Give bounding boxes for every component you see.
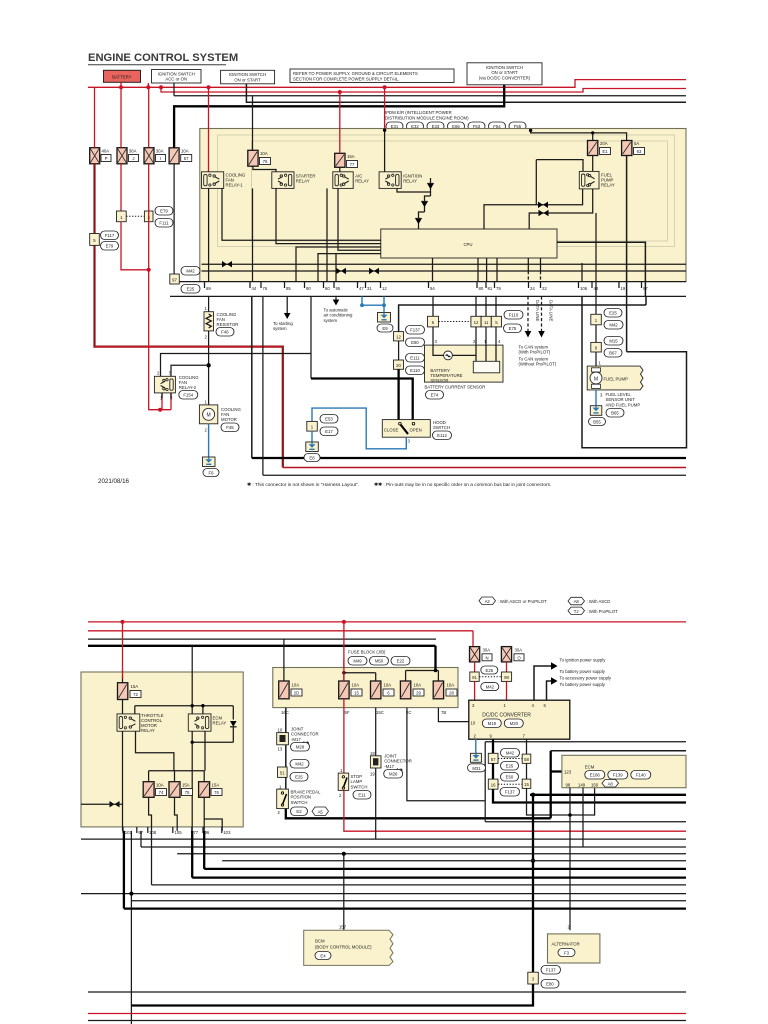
wire: thick drop to connector 3 xyxy=(532,795,534,972)
svg-text:40A: 40A xyxy=(102,149,110,154)
ovals M42 E25 E60 F137 xyxy=(498,749,522,797)
wire: relay1 output to pin 69 xyxy=(208,188,210,281)
svg-text:ALTERNATOR: ALTERNATOR xyxy=(552,942,580,947)
svg-text:F6: F6 xyxy=(208,471,214,476)
svg-text:F137: F137 xyxy=(410,328,420,333)
svg-text:-M17: -M17 xyxy=(384,764,394,769)
wire: red bus 2 bottom section xyxy=(88,630,473,632)
wire: throttle relay output xyxy=(136,731,174,771)
svg-text:76: 76 xyxy=(214,790,219,795)
svg-text:ON or START: ON or START xyxy=(234,77,261,82)
wire: 2C loop xyxy=(407,708,485,801)
wire: relay2 pin2 riser xyxy=(161,354,312,377)
wire: 40A output dark red to relay2 area xyxy=(95,164,283,468)
wire: red into cooling fan relay-1 xyxy=(208,87,210,172)
svg-text:RELAY: RELAY xyxy=(601,183,615,188)
fuel level sensor label xyxy=(606,392,641,417)
BCM U4 xyxy=(304,925,393,966)
svg-text:E53: E53 xyxy=(325,417,333,422)
svg-text:F140: F140 xyxy=(636,773,646,778)
svg-text:15A: 15A xyxy=(131,684,139,689)
wire: ignition relay to diode stack xyxy=(397,188,431,192)
svg-text:F3: F3 xyxy=(564,951,570,956)
wire: M26 down to line xyxy=(375,768,377,839)
relay: fuel pump relay xyxy=(579,171,615,189)
connector 3 F137/E80 xyxy=(528,966,561,989)
pin row numbers xyxy=(206,286,648,291)
svg-text:72: 72 xyxy=(133,692,138,697)
connectors E31 E32 E33 E66 F53 F54 F55 xyxy=(386,122,526,131)
svg-text:TJ: TJ xyxy=(574,609,579,614)
fuse 10A 57 xyxy=(169,148,192,164)
svg-text:DATA LINE: DATA LINE xyxy=(549,300,554,321)
stop lamp switch S3 xyxy=(338,768,371,799)
svg-text:SWITCH: SWITCH xyxy=(351,784,368,789)
svg-text:RELAY: RELAY xyxy=(213,721,227,726)
wire: ECM relay contact output xyxy=(204,731,206,771)
svg-text:81: 81 xyxy=(488,286,493,291)
wire: black bus D from ON/START xyxy=(246,84,686,103)
pin row strip xyxy=(170,282,686,297)
svg-text:DISTRIBUTION MODULE ENGINE ROO: DISTRIBUTION MODULE ENGINE ROOM) xyxy=(385,116,469,121)
wire: 15 loop to ECM pin150 xyxy=(527,788,595,815)
wire: ECM pin 98 to alternator xyxy=(569,788,571,931)
wire: to brake switch xyxy=(285,777,287,789)
svg-text:E17: E17 xyxy=(325,429,333,434)
svg-text:30A: 30A xyxy=(515,648,523,653)
wire: relay2 red pins xyxy=(162,393,171,398)
fuse 15A 77 xyxy=(335,153,358,167)
wire: fuse74 to pin 108 xyxy=(149,797,152,831)
svg-text:To ignition power supply: To ignition power supply xyxy=(560,658,607,663)
svg-text:76: 76 xyxy=(263,286,268,291)
ECM thick loop xyxy=(550,751,552,819)
wire: connector3 thick L xyxy=(131,984,533,1006)
wire: dotted harness link 1-3 xyxy=(126,215,144,217)
svg-text:E79: E79 xyxy=(106,244,114,249)
svg-text:IPDM E/R (INTELLIGENT POWER: IPDM E/R (INTELLIGENT POWER xyxy=(385,110,452,115)
svg-text:10A: 10A xyxy=(414,683,422,688)
fusible link 40A P xyxy=(90,148,111,164)
wire: 7B to DC/DC pin10 xyxy=(438,708,468,722)
wire: 20 to hood pin1 thick xyxy=(397,369,399,420)
relay: cooling fan relay-2 xyxy=(154,371,199,401)
svg-text:E8: E8 xyxy=(309,456,315,461)
svg-text:M49: M49 xyxy=(353,659,362,664)
wire: sensor feed pins xyxy=(432,296,434,316)
wire: ECM pin 149 xyxy=(582,788,584,847)
svg-text:E25: E25 xyxy=(609,311,617,316)
wire: pin106 long loop xyxy=(582,296,687,447)
ground F6 xyxy=(203,457,220,477)
fuse 10A 28 xyxy=(433,681,457,699)
svg-text:BATTERY: BATTERY xyxy=(112,75,132,80)
svg-text:24: 24 xyxy=(530,286,535,291)
svg-text:108: 108 xyxy=(149,830,157,835)
diode pair J1 xyxy=(222,261,232,267)
connector 20 E111/E110 xyxy=(394,354,425,375)
arrow: pin6 to accessory/battery supply xyxy=(547,676,612,701)
ground E8 xyxy=(304,442,320,462)
svg-text:18: 18 xyxy=(370,751,375,756)
connector 51 M42/E25 xyxy=(278,760,310,782)
battery box xyxy=(104,70,141,82)
svg-text:E74: E74 xyxy=(431,393,439,398)
svg-text:B65: B65 xyxy=(611,411,619,416)
svg-text:FUEL PUMP: FUEL PUMP xyxy=(604,377,629,382)
svg-text:44: 44 xyxy=(252,286,257,291)
svg-text:P: P xyxy=(105,156,108,161)
wire: fuel pump relay coil feed xyxy=(536,160,583,205)
fuel pump feed connectors xyxy=(591,296,623,366)
wire: pin7 chain xyxy=(526,739,528,754)
svg-text:11: 11 xyxy=(484,320,489,325)
svg-text:E111: E111 xyxy=(410,356,420,361)
svg-text:B55: B55 xyxy=(593,420,601,425)
svg-text:123: 123 xyxy=(564,770,572,775)
svg-text:DC/DC CONVERTER: DC/DC CONVERTER xyxy=(482,713,531,719)
wire: red drop to 30A links xyxy=(473,631,475,647)
svg-text:19: 19 xyxy=(370,772,375,777)
DC/DC converter U2 xyxy=(469,700,570,739)
wire: black bus C from ACC xyxy=(174,83,686,96)
svg-text:63: 63 xyxy=(637,149,642,154)
svg-text:15A: 15A xyxy=(347,154,355,159)
relay: starter relay xyxy=(272,172,316,189)
svg-text:IGNITION SWITCH: IGNITION SWITCH xyxy=(229,72,266,77)
ignition switch ON or START box xyxy=(221,70,275,84)
svg-text:85: 85 xyxy=(286,286,291,291)
wire: relay top link xyxy=(135,706,234,720)
svg-text:2D: 2D xyxy=(294,691,300,696)
svg-text:RESISTOR: RESISTOR xyxy=(217,322,239,327)
ignition switch ACC or ON box xyxy=(152,70,202,84)
svg-text:60: 60 xyxy=(325,286,330,291)
relay: throttle control motor relay xyxy=(117,713,164,733)
fuse 15A 72 xyxy=(118,676,142,700)
diode D2 xyxy=(419,196,431,229)
svg-text:106: 106 xyxy=(580,286,588,291)
wire: 20A fuse to fuel pump relay xyxy=(592,156,594,172)
IPDM E/R body U100 xyxy=(200,129,686,282)
wire: long drop at 131 xyxy=(130,831,132,1024)
svg-text:J: J xyxy=(132,156,134,161)
svg-text:103: 103 xyxy=(223,830,231,835)
svg-text:67: 67 xyxy=(643,286,648,291)
svg-text:M42: M42 xyxy=(486,685,495,690)
svg-text:10A: 10A xyxy=(447,683,455,688)
diode pair J2 xyxy=(336,268,346,274)
wire: 16 to thick rail xyxy=(493,789,686,802)
ECM U3 xyxy=(562,755,686,787)
fuse 15A 75 xyxy=(169,782,193,798)
svg-text:: With ASCD or ProPILOT: : With ASCD or ProPILOT xyxy=(498,599,548,604)
wire: fuse15-fuse6 top link xyxy=(344,673,376,681)
wire: fuse72 to throttle relay xyxy=(122,700,124,714)
arrow: pin4 to ignition/battery supply xyxy=(534,658,606,701)
svg-text:94: 94 xyxy=(430,286,435,291)
svg-text:FUSE BLOCK (J/B): FUSE BLOCK (J/B) xyxy=(348,650,386,655)
svg-text:10A: 10A xyxy=(292,683,300,688)
svg-text:A8: A8 xyxy=(608,781,614,786)
wire: long horizontal inside IPDM A xyxy=(202,263,687,265)
svg-text:10A: 10A xyxy=(260,151,268,156)
wire: relay2 pin5 link xyxy=(171,365,209,376)
relay: cooling fan relay-1 xyxy=(202,172,246,189)
left box pin row xyxy=(125,830,231,835)
wire: brake switch to thick rail xyxy=(286,809,551,819)
diode D3 xyxy=(415,219,422,225)
node xyxy=(206,363,210,367)
svg-text:IGNITION SWITCH: IGNITION SWITCH xyxy=(486,65,523,70)
svg-text:CPU: CPU xyxy=(463,242,472,247)
svg-text:105: 105 xyxy=(175,830,183,835)
svg-text:58: 58 xyxy=(524,757,529,762)
svg-text:149: 149 xyxy=(578,782,586,787)
svg-text:OPEN: OPEN xyxy=(410,428,422,433)
wire: pin76 drop to lower line xyxy=(262,296,264,475)
svg-text:12: 12 xyxy=(474,320,479,325)
svg-text:ON or START: ON or START xyxy=(491,70,518,75)
svg-text:To battery power supply: To battery power supply xyxy=(560,682,606,687)
wire: E53 to ground xyxy=(311,431,313,442)
svg-text:MOTOR: MOTOR xyxy=(221,417,237,422)
svg-text:N: N xyxy=(485,655,488,660)
bottom harness lines xyxy=(88,991,686,993)
svg-text:30A: 30A xyxy=(129,149,137,154)
cooling fan motor M1 xyxy=(199,400,241,433)
svg-text:A2: A2 xyxy=(485,599,491,604)
svg-text:E80: E80 xyxy=(411,340,419,345)
svg-text:BATTERY CURRENT SENSOR: BATTERY CURRENT SENSOR xyxy=(425,385,486,390)
fusible link 30A N xyxy=(470,647,493,662)
wire: red drop to fuse 72 xyxy=(122,622,124,683)
wire: battery drop xyxy=(120,82,122,87)
svg-text:15A: 15A xyxy=(182,783,190,788)
cooling fan resistor R1 xyxy=(204,296,238,339)
wire: data line pins dashed xyxy=(528,258,540,271)
wire: 15C to joint connector M26 xyxy=(375,708,377,756)
wire: red feed overdraw fuse15 xyxy=(343,660,345,681)
connector 3 E79/F111 xyxy=(144,207,173,228)
connector 1 xyxy=(117,211,127,222)
node red dots xyxy=(121,620,125,624)
wire: fuel pump relay coil line 2 xyxy=(529,189,593,229)
svg-text:RELAY-1: RELAY-1 xyxy=(226,183,244,188)
wire: bus A red to ignition relay pin xyxy=(384,87,386,129)
diode D4 xyxy=(230,721,237,742)
legend tag TJ xyxy=(568,607,618,614)
svg-text:16C: 16C xyxy=(281,710,289,715)
wire: fuel pump relay coil line 1 xyxy=(484,189,583,229)
svg-text:REFER TO POWER SUPPLY, GROUND: REFER TO POWER SUPPLY, GROUND & CIRCUIT … xyxy=(293,71,418,76)
wire: links to 91/98 xyxy=(475,662,507,672)
diode D1 xyxy=(427,178,434,196)
fuse 5A 63 xyxy=(622,141,645,156)
ground E9 xyxy=(377,313,393,333)
svg-text:10: 10 xyxy=(278,727,283,732)
svg-text:48: 48 xyxy=(594,286,599,291)
svg-text:10A: 10A xyxy=(156,783,164,788)
wire: blue ground pins 47/12 xyxy=(360,296,386,312)
wire: BCM drop xyxy=(343,854,345,931)
fuse 15A 76 xyxy=(199,782,222,798)
left control box xyxy=(81,672,243,827)
svg-text:SWITCH: SWITCH xyxy=(433,425,450,430)
svg-text:80: 80 xyxy=(479,286,484,291)
brake pedal position switch S2 xyxy=(277,784,329,815)
svg-text:B67: B67 xyxy=(609,351,617,356)
svg-text:SECTION FOR COMPLETE POWER SUP: SECTION FOR COMPLETE POWER SUPPLY DETAIL… xyxy=(293,76,400,81)
svg-text:M42: M42 xyxy=(186,269,195,274)
svg-text:10A: 10A xyxy=(384,683,392,688)
fuse 10A 74 xyxy=(143,782,166,798)
fusible link 30A O xyxy=(501,647,524,662)
connector 57 xyxy=(488,753,498,763)
svg-text:AND FUEL PUMP: AND FUEL PUMP xyxy=(606,402,641,407)
svg-text:150: 150 xyxy=(591,782,599,787)
svg-text:13: 13 xyxy=(278,747,283,752)
svg-text:5F: 5F xyxy=(345,710,350,715)
data line arrows xyxy=(519,296,557,366)
connector 98 xyxy=(501,672,511,681)
svg-text:(With ProPILOT): (With ProPILOT) xyxy=(519,350,551,355)
svg-text:15A: 15A xyxy=(212,783,220,788)
svg-text:system: system xyxy=(273,326,287,331)
svg-text:10A: 10A xyxy=(181,149,189,154)
svg-text:E22: E22 xyxy=(397,659,405,664)
fuse block pin labels xyxy=(281,710,446,715)
wire: J6 line xyxy=(81,803,123,805)
wire: pin19 tail handled above, pin67 hood line T xyxy=(581,306,583,308)
svg-text:IGNITION SWITCH: IGNITION SWITCH xyxy=(158,71,195,76)
svg-text:To battery power supply: To battery power supply xyxy=(560,669,606,674)
wire: thick link to hood pin2 xyxy=(311,379,413,421)
svg-text:91: 91 xyxy=(472,675,477,680)
svg-text:28: 28 xyxy=(449,691,454,696)
svg-text:-M17: -M17 xyxy=(291,737,301,742)
svg-text:ECM: ECM xyxy=(585,765,595,770)
wire: black bus thick bottom section xyxy=(88,645,436,647)
wire: bus D to 20A/5A fuses xyxy=(531,130,627,141)
wire: 16C output thick xyxy=(285,708,287,733)
svg-text:E106: E106 xyxy=(590,773,601,778)
wire: red bus A xyxy=(88,80,686,88)
svg-text:✱✱ : Pin-outs may be in no spe: ✱✱ : Pin-outs may be in no specific orde… xyxy=(374,482,551,488)
E25/M42 ovals between xyxy=(479,666,501,691)
svg-text:5A: 5A xyxy=(634,141,639,146)
svg-text:F45: F45 xyxy=(226,425,234,430)
fusible link 30A J xyxy=(117,148,139,164)
wire: red drop to fuse 15 xyxy=(343,622,345,681)
wire: black bus E from via-DC/DC switch xyxy=(174,85,504,148)
svg-text:(Without ProPILOT): (Without ProPILOT) xyxy=(519,362,557,367)
svg-text:76: 76 xyxy=(263,159,268,164)
wire: fuse76 to starter relay xyxy=(253,166,276,172)
svg-text:E1: E1 xyxy=(602,149,608,154)
wire: ECM pin 123 xyxy=(551,770,562,772)
wire: bus C to fuse76 xyxy=(252,96,254,151)
wire: starter relay output to pin 44 xyxy=(252,188,254,281)
wire: throttle relay contact in to fuses xyxy=(149,771,205,782)
svg-text:30A: 30A xyxy=(483,648,491,653)
connector 12 F137/E80 xyxy=(394,326,425,347)
wire: thick black bottom bus xyxy=(252,457,686,459)
fuse 10A 76 xyxy=(248,150,271,166)
svg-text:E25: E25 xyxy=(187,287,195,292)
IPDM inner board outline 2 xyxy=(252,141,668,241)
svg-text:DATA LINE: DATA LINE xyxy=(535,300,540,321)
arrow: to starting system xyxy=(273,296,293,331)
connector 5 F117/E79 xyxy=(90,231,119,250)
svg-text:E79: E79 xyxy=(160,209,168,214)
svg-text:BCM: BCM xyxy=(315,939,325,944)
svg-text:98: 98 xyxy=(566,782,571,787)
svg-text:M42: M42 xyxy=(609,323,618,328)
connector 15 xyxy=(522,779,531,788)
wire: black bus thin bottom section xyxy=(88,638,436,640)
battery current sensor assembly xyxy=(425,296,524,399)
fuse 10A 6 xyxy=(371,681,395,699)
wire: fuse77 to AC relay xyxy=(339,167,341,172)
svg-text:M50: M50 xyxy=(375,659,384,664)
svg-text:F111: F111 xyxy=(159,221,169,226)
svg-text:F137: F137 xyxy=(546,968,556,973)
wire: fuse72 chain to joint line xyxy=(122,731,124,831)
svg-text:F46: F46 xyxy=(221,330,229,335)
svg-text:(via DC/DC CONVERTER): (via DC/DC CONVERTER) xyxy=(479,75,531,80)
svg-text:F139: F139 xyxy=(613,773,623,778)
svg-text:M28: M28 xyxy=(296,745,305,750)
diode pair J4 xyxy=(538,202,548,208)
legend tag A2 xyxy=(479,597,547,605)
fuse 10A 29 xyxy=(400,681,424,699)
svg-text:SENSOR: SENSOR xyxy=(430,378,448,383)
svg-text:30A: 30A xyxy=(156,149,164,154)
svg-text:75: 75 xyxy=(185,790,190,795)
svg-text:E25: E25 xyxy=(295,775,303,780)
svg-text:M: M xyxy=(207,413,211,419)
svg-text:E9: E9 xyxy=(382,326,388,331)
svg-text:19: 19 xyxy=(621,286,626,291)
fuse block J/B xyxy=(273,650,458,708)
pin row ticks xyxy=(205,282,642,288)
svg-text:12: 12 xyxy=(396,335,401,340)
svg-text:47: 47 xyxy=(359,286,364,291)
svg-text:98: 98 xyxy=(504,675,509,680)
wire: ECM relay feed xyxy=(191,646,193,714)
ground M31 xyxy=(468,753,486,772)
svg-text:M31: M31 xyxy=(472,766,481,771)
wire: bus B red to fuse 77 xyxy=(339,92,341,153)
svg-text:RELAY: RELAY xyxy=(141,728,155,733)
wire: thick rail mid xyxy=(530,794,686,796)
connector 1 E53/E17 xyxy=(307,415,338,436)
wire: ECM relay output to pin 77 xyxy=(191,742,193,831)
svg-text:: With ASCD: : With ASCD xyxy=(587,599,611,604)
svg-text:10: 10 xyxy=(471,721,476,726)
svg-text:95: 95 xyxy=(336,286,341,291)
svg-text:E25: E25 xyxy=(485,668,493,673)
svg-text:7B: 7B xyxy=(441,710,446,715)
svg-text:10A: 10A xyxy=(352,683,360,688)
wire: red feed overdraw fuse72 xyxy=(122,670,124,679)
svg-text:F137: F137 xyxy=(505,790,515,795)
fusible link 30A I xyxy=(144,148,166,164)
connector 58 xyxy=(522,754,531,763)
svg-text:F110: F110 xyxy=(509,313,519,318)
wire: fuse1 feed xyxy=(283,639,285,681)
